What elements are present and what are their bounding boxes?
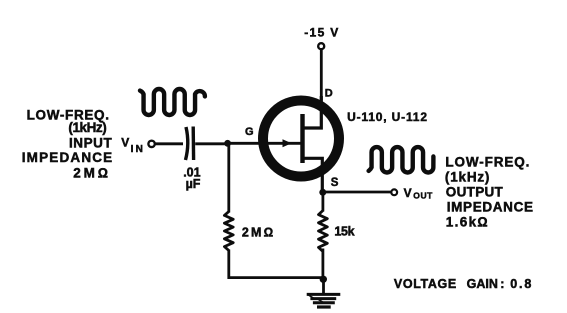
pin label D <box>325 87 333 99</box>
svg-text:2MΩ: 2MΩ <box>242 226 273 240</box>
node VIN label <box>121 135 143 155</box>
input waveform <box>140 89 205 115</box>
resistor R2 15k zigzag <box>319 211 328 252</box>
wire capacitor to gate node <box>195 142 229 145</box>
wire VIN to capacitor <box>156 142 184 145</box>
wire source node to VOUT terminal <box>323 191 391 194</box>
svg-text:(1kHz): (1kHz) <box>445 169 490 184</box>
wire R1 bottom to ground rail <box>229 250 324 278</box>
svg-text:0.8: 0.8 <box>510 277 531 291</box>
svg-text:OUTPUT: OUTPUT <box>446 184 504 199</box>
svg-text:GAIN: GAIN <box>467 277 498 291</box>
svg-text:V: V <box>121 135 129 149</box>
terminal -15V <box>318 43 324 49</box>
svg-text:G: G <box>245 126 254 138</box>
svg-text:D: D <box>325 87 333 99</box>
svg-text:15k: 15k <box>334 224 354 238</box>
capacitor value label .01 uF <box>183 166 201 191</box>
svg-text:LOW-FREQ.: LOW-FREQ. <box>445 155 529 170</box>
svg-text:(1kHz): (1kHz) <box>68 120 106 135</box>
wire R2 bottom to ground node <box>321 249 324 280</box>
pin label G <box>245 126 254 138</box>
label: low-freq (1kHz) output impedance 1.6k ohm <box>445 155 533 230</box>
svg-text:IN: IN <box>131 144 143 155</box>
svg-text:-15 V: -15 V <box>304 26 338 40</box>
svg-text:µF: µF <box>186 177 201 191</box>
svg-text:IMPEDANCE: IMPEDANCE <box>22 150 113 165</box>
wire source node down to resistor R2 <box>321 192 324 212</box>
wire gate node down to resistor R1 <box>227 143 230 212</box>
ground symbol <box>307 280 341 307</box>
svg-text:2MΩ: 2MΩ <box>73 166 108 181</box>
node ground junction dot <box>320 276 327 283</box>
node VOUT label <box>404 186 433 200</box>
node S junction dot <box>319 189 326 196</box>
supply label -15 V <box>304 26 338 40</box>
resistor R1 value label 2M ohm <box>242 226 273 240</box>
node junction dot (gate node) <box>224 140 231 147</box>
svg-text:1.6kΩ: 1.6kΩ <box>446 214 488 229</box>
svg-text:S: S <box>331 177 339 189</box>
svg-text::: : <box>500 277 504 291</box>
svg-text:IMPEDANCE: IMPEDANCE <box>447 199 533 214</box>
svg-text:VOLTAGE: VOLTAGE <box>394 277 456 291</box>
svg-text:V: V <box>404 186 412 200</box>
terminal VOUT <box>391 189 397 195</box>
capacitor C1 <box>186 127 194 161</box>
transistor Q1 circle (JFET U-110/U-112) <box>263 101 339 177</box>
part number label U-110, U-112 <box>347 110 427 124</box>
transistor Q1 gate arrowhead <box>283 139 292 147</box>
label: low-freq (1kHz) input impedance 2M ohm <box>22 108 113 181</box>
wire gate node to JFET gate <box>228 142 301 145</box>
caption VOLTAGE GAIN: 0.8 <box>394 277 531 291</box>
resistor R1 2M ohm zigzag <box>224 212 233 251</box>
svg-text:INPUT: INPUT <box>69 136 112 151</box>
terminal VIN <box>148 141 154 147</box>
pin label S <box>331 177 339 189</box>
output waveform <box>369 147 434 172</box>
svg-text:U-110, U-112: U-110, U-112 <box>347 110 427 124</box>
transistor Q1 drain stub <box>303 96 322 128</box>
resistor R2 value label 15k <box>334 224 354 238</box>
transistor Q1 source stub <box>303 158 323 193</box>
svg-text:OUT: OUT <box>413 190 433 200</box>
transistor Q1 channel bar <box>300 114 304 163</box>
wire drain to -15V terminal <box>320 50 323 101</box>
